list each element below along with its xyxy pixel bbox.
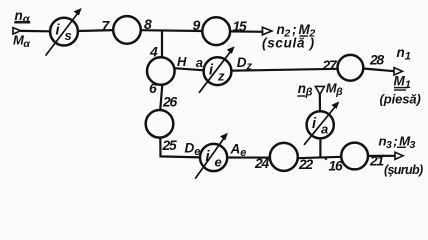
wire H to iz (175, 68, 204, 70)
gear circle 24-22 (270, 143, 298, 171)
gear circle 7-8 (113, 16, 141, 44)
svg-text:H: H (177, 54, 187, 69)
wire is to gear 7-8 (78, 29, 113, 32)
svg-text:4: 4 (149, 44, 158, 60)
wire shaft 4 vertical (161, 31, 163, 58)
variator arrow is (46, 8, 82, 56)
svg-text:6: 6 (149, 80, 157, 96)
svg-text:(piesă): (piesă) (380, 92, 421, 107)
wire gear21 to output arrow n3 (368, 155, 395, 157)
svg-text:9: 9 (193, 17, 201, 33)
wire gear8 to gear 9-15 (141, 29, 203, 32)
wire ie to gear 24-22 (227, 156, 270, 158)
wire 25 down to bottom shaft (160, 138, 200, 158)
wire input to is (21, 30, 50, 33)
svg-text:16: 16 (329, 158, 343, 173)
variator circle is (50, 18, 78, 46)
svg-text:a: a (196, 55, 203, 70)
svg-text:25: 25 (162, 138, 177, 153)
svg-text:22: 22 (298, 157, 313, 172)
wire shaft 6 vertical (160, 85, 162, 110)
gear circle 9-15 (202, 17, 230, 45)
svg-text:15: 15 (233, 19, 247, 34)
variator arrow iz (199, 46, 235, 93)
variator arrow ia (304, 101, 339, 144)
label n-beta (297, 81, 312, 99)
input arrow n-alpha (13, 28, 21, 34)
gear circle 26-25 (146, 110, 174, 138)
wire iz to gear 27-28 (231, 69, 337, 71)
svg-text:(sculă ): (sculă ) (262, 36, 315, 51)
label M1 piesa (380, 74, 421, 107)
variator arrow ie (195, 133, 228, 179)
label n3 M3 (379, 134, 423, 177)
svg-text:26: 26 (162, 95, 177, 110)
junction tick (325, 158, 327, 159)
wire junction up to ia (319, 138, 321, 157)
wire gear15 to output arrow n2 (230, 30, 263, 33)
wire 22 to gear 16-21 with junction (298, 157, 342, 158)
svg-text:(şurub): (şurub) (384, 163, 423, 177)
variator circle ia (307, 111, 334, 138)
gear circle H (147, 57, 175, 85)
gear circle 16-21 (341, 143, 368, 170)
label n-alpha (14, 8, 30, 26)
label n2 M2 sculа (262, 22, 315, 50)
variator circle ie (200, 144, 227, 171)
wire gear28 to output arrow n1 (363, 69, 394, 72)
svg-text:21: 21 (369, 154, 383, 169)
output arrow n1 (394, 68, 402, 75)
svg-text:7: 7 (102, 18, 111, 34)
input arrow n-beta pointing down (315, 86, 324, 94)
svg-text:8: 8 (144, 16, 152, 32)
svg-text:28: 28 (369, 53, 384, 68)
output arrow n3 (395, 152, 403, 159)
svg-text:24: 24 (254, 156, 269, 171)
variator circle iz (204, 57, 232, 85)
gear circle 27-28 (338, 55, 364, 81)
output arrow n2 (262, 27, 272, 35)
wire ia up to input triangle n-beta (319, 94, 321, 111)
